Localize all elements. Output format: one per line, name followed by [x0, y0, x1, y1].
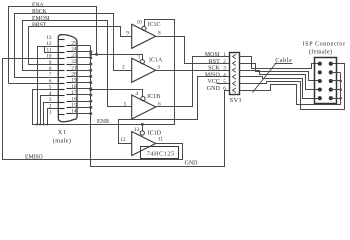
svg-text:IC1A: IC1A — [149, 57, 163, 63]
wire IC1D enable stub — [142, 125, 144, 131]
svg-text:8: 8 — [49, 66, 52, 72]
svg-text:5: 5 — [223, 79, 226, 85]
wire X1 pin5 to ENB — [33, 90, 59, 125]
svg-text:Cable: Cable — [275, 57, 292, 64]
junction dot enable A at bus — [89, 53, 92, 56]
junction dot enable B at bus — [89, 88, 92, 91]
svg-text:(male): (male) — [53, 137, 72, 144]
svg-text:6: 6 — [49, 78, 52, 84]
wire RSCK — [15, 14, 132, 78]
wire X1 right pin stubs to bus — [72, 46, 91, 114]
svg-text:12: 12 — [120, 137, 126, 143]
svg-text:4: 4 — [49, 91, 52, 97]
cable slash symbol — [253, 63, 277, 93]
ISP pin dots right column — [329, 62, 333, 101]
X1 left pin dashes — [58, 40, 65, 115]
svg-text:2: 2 — [49, 103, 52, 109]
pin header SV1 box — [230, 53, 240, 95]
svg-text:1: 1 — [138, 55, 141, 61]
svg-text:GND: GND — [207, 86, 221, 92]
wire IC1B output to MOSI — [156, 57, 230, 107]
svg-text:2: 2 — [122, 65, 125, 71]
svg-text:7: 7 — [49, 72, 52, 78]
svg-text:GND: GND — [185, 161, 199, 167]
wire enable B from bus — [91, 90, 143, 97]
cable wire 5 VCC wrap — [240, 64, 345, 110]
svg-text:VCC: VCC — [207, 79, 219, 85]
svg-text:12: 12 — [46, 41, 52, 47]
svg-text:ISP Connector: ISP Connector — [303, 41, 346, 48]
op-amp buffer IC1A — [132, 58, 156, 82]
wire X1 pin3 to ENB — [44, 103, 59, 125]
svg-text:8: 8 — [158, 31, 161, 37]
wire enable A from bus — [91, 55, 143, 60]
junction dots ENB chain — [36, 123, 48, 125]
svg-text:SV1: SV1 — [230, 97, 242, 104]
svg-text:MISO: MISO — [205, 72, 221, 78]
svg-text:X1: X1 — [58, 129, 67, 136]
SV1 net name labels — [205, 52, 221, 92]
svg-text:EMISO: EMISO — [25, 155, 43, 161]
wire X1 pin4 to ENB — [41, 96, 59, 125]
wire pin11 tie to pin12 — [45, 47, 59, 53]
wire VCC stub — [217, 83, 230, 85]
svg-text:74HC125: 74HC125 — [147, 150, 175, 157]
svg-text:9: 9 — [49, 60, 52, 66]
X1 right pin dashes — [67, 46, 72, 114]
svg-text:ENB: ENB — [97, 119, 109, 125]
wire ENA top run — [9, 7, 97, 84]
wire MISO from SV1 to IC1D input — [119, 77, 230, 144]
svg-text:13: 13 — [134, 127, 140, 133]
SV1 pin number labels — [223, 52, 226, 92]
svg-text:3: 3 — [223, 66, 226, 72]
connector X1 body — [58, 35, 77, 122]
X1 left pin numbers — [46, 35, 52, 116]
wire X1 pin2 to ENB — [48, 109, 59, 125]
junction dots on GND bus — [89, 50, 92, 115]
svg-text:10: 10 — [46, 54, 52, 60]
svg-text:RSCK: RSCK — [32, 9, 48, 15]
wire ENA to X1 pin 6 — [9, 83, 59, 85]
op-amp buffer IC1D — [132, 132, 156, 156]
wire ISP right column GND stubs — [331, 72, 341, 74]
svg-text:3: 3 — [49, 97, 52, 103]
svg-text:11: 11 — [47, 47, 52, 53]
op-amp buffer IC1B — [132, 95, 156, 119]
wire IC1C output to RST — [156, 37, 230, 64]
svg-text:6: 6 — [223, 86, 226, 92]
junction dot IC1D enable on ENB — [141, 123, 144, 126]
svg-text:1: 1 — [49, 110, 52, 116]
svg-text:10: 10 — [137, 20, 143, 26]
svg-text:4: 4 — [223, 73, 226, 79]
cable wire 2 RST — [240, 64, 320, 81]
wire pin12 strap down to ENB — [38, 20, 175, 125]
svg-text:9: 9 — [126, 30, 129, 36]
svg-text:IC1C: IC1C — [148, 22, 161, 28]
SV1 pin brackets — [233, 54, 236, 92]
svg-text:IC1B: IC1B — [147, 94, 160, 100]
cable wire 4 MISO — [240, 77, 320, 99]
svg-text:5: 5 — [49, 85, 52, 91]
svg-text:3: 3 — [157, 65, 160, 71]
svg-text:11: 11 — [158, 136, 163, 142]
junction dot ENA join — [95, 53, 98, 56]
wire EMOSI — [23, 21, 132, 107]
wire GND bus vertical and bottom run — [91, 46, 230, 167]
cable wire 6 GND wrap — [240, 73, 341, 105]
wire IC1A output to SCK — [156, 70, 230, 72]
ISP connector box — [315, 58, 337, 104]
svg-text:ENA: ENA — [32, 2, 45, 8]
svg-text:BRST: BRST — [32, 23, 47, 29]
svg-text:17: 17 — [71, 90, 77, 96]
svg-text:4: 4 — [135, 91, 138, 97]
wire BRST — [29, 27, 132, 65]
wire EMISO left — [3, 59, 183, 160]
cable wire 3 SCK — [240, 71, 320, 90]
svg-text:(female): (female) — [309, 49, 333, 56]
cable wire 1 MOSI — [240, 57, 320, 69]
ISP pin dots left column — [318, 62, 322, 101]
74HC125 power box — [141, 147, 179, 159]
svg-text:1: 1 — [223, 52, 226, 58]
svg-text:13: 13 — [46, 35, 52, 41]
svg-text:SCK: SCK — [208, 66, 220, 72]
X1 right pin numbers — [71, 41, 77, 115]
junction dots ISP GND bus — [339, 80, 342, 100]
svg-text:2: 2 — [223, 59, 226, 65]
svg-text:MOSI: MOSI — [205, 52, 220, 58]
op-amp buffer IC1C — [132, 24, 156, 48]
svg-text:5: 5 — [124, 101, 127, 107]
svg-text:RST: RST — [209, 59, 220, 65]
